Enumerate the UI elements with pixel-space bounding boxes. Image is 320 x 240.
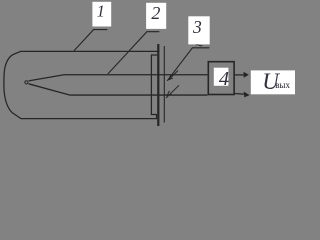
needle electrode top edge / wire 1 to block 4 — [29, 75, 208, 81]
block 4 outer square — [208, 62, 234, 95]
output arrow upper — [235, 72, 249, 78]
svg-text:вых: вых — [275, 80, 290, 90]
arrow onto upper plate gap — [169, 71, 178, 80]
svg-text:2: 2 — [151, 3, 160, 23]
end wall plate (thick bar) — [157, 44, 159, 126]
U_out white box — [251, 70, 295, 94]
arrow onto lower plate gap — [166, 85, 179, 98]
tick mark under label 3 — [196, 45, 202, 46]
label 2 white box — [146, 3, 166, 29]
tube envelope (body with rounded left cap) — [4, 51, 160, 118]
leader line of label 2 — [108, 32, 159, 74]
outer membrane plate — [163, 46, 165, 123]
svg-text:3: 3 — [192, 17, 202, 37]
needle electrode bottom edge / wire 2 to block 4 — [29, 84, 208, 95]
background canvas — [0, 0, 295, 145]
output arrow lower — [235, 92, 250, 98]
needle electrode tip circle — [25, 81, 28, 84]
svg-text:4: 4 — [219, 68, 229, 90]
svg-text:1: 1 — [97, 2, 105, 21]
block 4 white inner box — [214, 68, 229, 86]
label 1 white box — [92, 2, 111, 27]
leader line of label 1 — [74, 30, 107, 51]
leader line of label 3 — [167, 48, 209, 81]
label 3 white box — [188, 16, 209, 44]
